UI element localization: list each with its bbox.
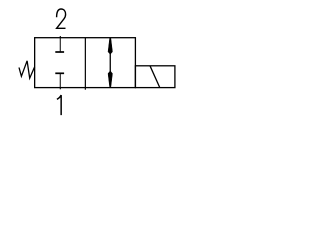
position divider (overshoots below bottom edge) xyxy=(84,38,86,90)
label 2 (port 2) xyxy=(57,9,66,28)
spring (return spring, left) xyxy=(19,61,35,78)
port 1 stub (bottom) xyxy=(59,88,61,90)
blocked port T (bottom, left square) xyxy=(55,73,64,87)
valve body box (two positions) xyxy=(35,38,136,88)
label 1 (port 1) xyxy=(57,95,61,115)
flow arrow (right square, double-headed) xyxy=(108,38,112,87)
blocked port T (top, left square) xyxy=(55,38,64,53)
port 2 stub (top) xyxy=(59,36,61,38)
solenoid diagonal xyxy=(150,66,160,88)
solenoid actuator box xyxy=(135,66,175,88)
